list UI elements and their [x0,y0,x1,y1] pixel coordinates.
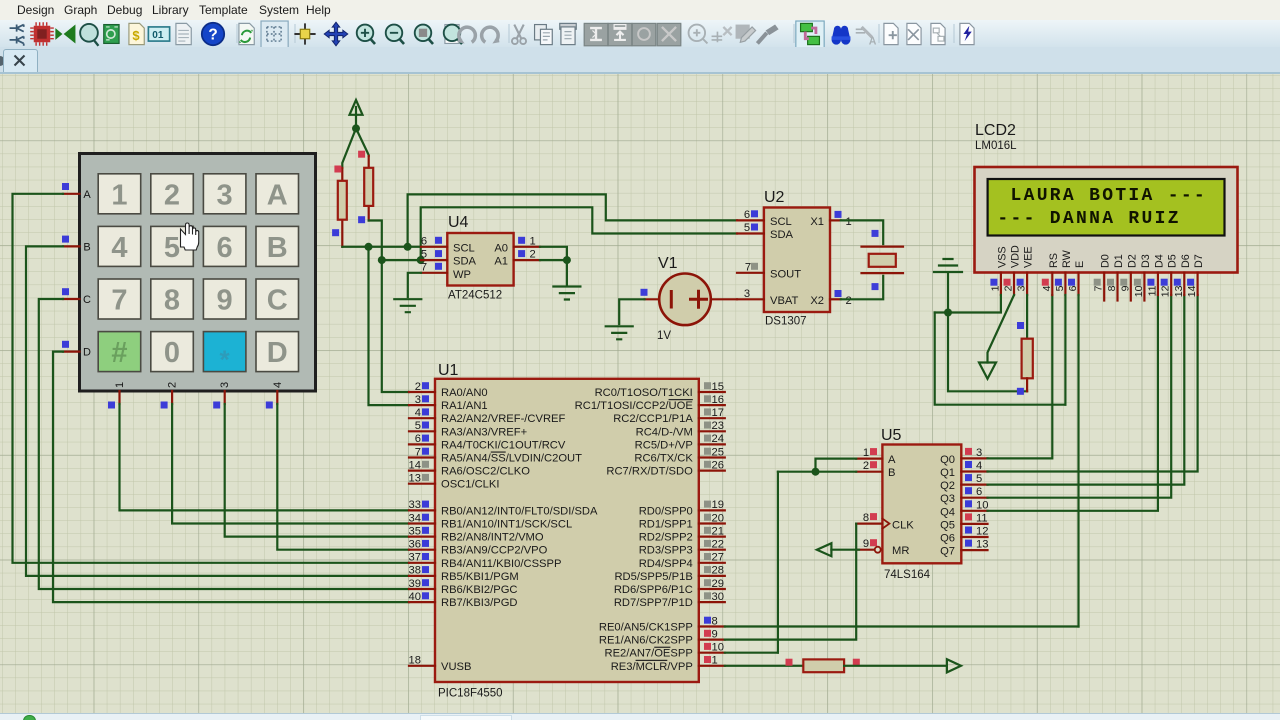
wire LCD VEE to resistor [1026,295,1028,339]
svg-text:8: 8 [164,285,180,317]
wire SDA column down to U1 RA0 [382,260,409,392]
wire outer loop to RW [935,313,1066,405]
svg-text:RE0/AN5/CK1SPP: RE0/AN5/CK1SPP [599,622,693,634]
wire U5 Q1 to LCD D7 [988,295,1198,472]
U1 pin 40 (RB7/KBI3/PGD) [409,591,518,609]
svg-text:9: 9 [1119,285,1131,291]
svg-text:RC5/D+/VP: RC5/D+/VP [635,439,693,451]
wire X1 to crystal [841,220,883,244]
U5 pin 12 (Q6) [961,526,988,538]
svg-text:6: 6 [217,232,233,264]
LCD pin 9 (D2) [1119,254,1138,300]
svg-text:17: 17 [712,407,724,419]
U1 pin 35 (RB2/AN8/INT2/VMO) [409,525,544,543]
svg-text:A: A [83,189,91,201]
svg-text:11: 11 [1146,285,1158,296]
ground (U4 WP) [394,299,421,312]
microcontroller U1 body [435,362,699,700]
svg-text:8: 8 [863,512,869,524]
svg-text:19: 19 [712,499,724,511]
svg-text:SDA: SDA [453,256,477,268]
svg-text:RA6/OSC2/CLKO: RA6/OSC2/CLKO [441,466,530,478]
svg-text:13: 13 [976,539,988,551]
svg-text:RD5/SPP5/P1B: RD5/SPP5/P1B [614,571,692,583]
node VEE wire [1017,322,1024,329]
svg-text:RD6/SPP6/P1C: RD6/SPP6/P1C [614,584,693,596]
U4 pin 5 [421,259,447,261]
U1 pin 33 (RB0/AN12/INT0/FLT0/SDI/SDA) [409,499,598,517]
wire keypad row C to U1 RB6 [39,299,409,589]
svg-text:VBAT: VBAT [770,295,799,307]
keypad row D pin [63,351,80,353]
U1 pin 13 (OSC1/CLKI) [409,473,500,491]
wire U5 B row to RE2 column [778,471,856,473]
svg-text:RA4/T0CKI/C1OUT/RCV: RA4/T0CKI/C1OUT/RCV [441,439,566,451]
svg-text:D7: D7 [1193,254,1205,268]
svg-text:5: 5 [1054,285,1066,291]
svg-text:1: 1 [111,179,127,211]
shift register U5 body [881,427,961,581]
svg-text:D4: D4 [1153,254,1165,268]
U2 pin 6 (SCL) [737,219,764,221]
U1 pin 23 (RC4/D-/VM) [636,420,725,438]
svg-text:9: 9 [217,285,233,317]
LCD pin 1 (VSS) [989,246,1008,295]
U1 pin 37 (RB4/AN11/KBI0/CSSPP) [409,552,562,570]
svg-text:5: 5 [421,249,427,261]
svg-text:3: 3 [219,382,231,388]
LCD pin 11 (D4) [1146,254,1165,296]
svg-text:1: 1 [114,382,126,388]
svg-text:2: 2 [164,179,180,211]
node keypad row A [62,183,69,190]
svg-text:MR: MR [892,545,909,557]
svg-text:8: 8 [712,615,718,627]
U5 pin 1 (A) [856,447,882,459]
svg-text:13: 13 [409,473,421,485]
svg-text:VEE: VEE [1023,246,1035,268]
svg-text:6: 6 [421,235,427,247]
svg-text:01: 01 [152,30,164,41]
svg-text:SCL: SCL [453,242,475,254]
svg-text:RA1/AN1: RA1/AN1 [441,400,488,412]
U1 pin 20 (RD1/SPP1) [639,512,725,530]
wire resistor to arrow terminal [844,665,947,667]
U1 pin 9 (RE1/AN6/CK2SPP) [599,628,725,646]
svg-text:U1: U1 [438,362,459,379]
U1 pin 25 (RC6/TX/CK) [634,446,724,464]
svg-text:6: 6 [976,486,982,498]
U1 pin 3 (RA1/AN1) [409,394,488,412]
U5 pin 10 (Q4) [961,499,988,511]
svg-text:4: 4 [976,460,982,472]
svg-text:1V: 1V [657,330,671,342]
U2 pin 3 (VBAT) [737,298,764,300]
svg-text:3: 3 [976,447,982,459]
svg-text:SOUT: SOUT [770,268,801,280]
ground (V1) [606,326,633,339]
wire SCL row [342,246,421,248]
op-amp U2 body [764,189,830,328]
svg-text:13: 13 [1173,285,1185,297]
svg-text:B: B [888,467,895,479]
svg-text:RD1/SPP1: RD1/SPP1 [639,519,693,531]
keypad column 3 pin [224,391,226,404]
svg-text:B: B [83,241,90,253]
svg-text:D6: D6 [1180,254,1192,268]
svg-text:RB6/KBI2/PGC: RB6/KBI2/PGC [441,584,517,596]
svg-text:0: 0 [164,337,180,369]
svg-text:4: 4 [1041,285,1053,291]
svg-text:21: 21 [712,525,724,537]
svg-text:RB4/AN11/KBI0/CSSPP: RB4/AN11/KBI0/CSSPP [441,558,561,570]
wire LCD VSS down-left [935,295,1001,313]
svg-text:3: 3 [744,288,750,300]
svg-text:Q3: Q3 [940,493,955,505]
U1 pin 8 (RE0/AN5/CK1SPP) [599,615,725,633]
wire ground node to VEE resistor bottom [948,313,1027,392]
LCD pin 8 (D1) [1106,254,1125,300]
svg-text:29: 29 [712,578,724,590]
LCD pin 12 (D5) [1160,254,1179,297]
svg-text:U5: U5 [881,427,902,444]
wire LCD VDD diagonal [988,295,1015,363]
LCD display LCD2 body [975,122,1238,273]
U1 pin 19 (RD0/SPP0) [639,499,725,517]
U1 pin 5 (RA3/AN3/VREF+) [409,420,527,438]
svg-text:A1: A1 [494,256,508,268]
svg-text:DS1307: DS1307 [765,316,807,328]
svg-text:Q6: Q6 [940,533,955,545]
svg-text:7: 7 [415,446,421,458]
U1 pin 30 (RD7/SPP7/P1D) [614,591,725,609]
svg-text:10: 10 [1133,285,1145,297]
U5 pin 4 (Q1) [961,460,987,472]
U5 pin 2 (B) [856,460,882,472]
svg-text:2: 2 [846,295,852,307]
svg-text:14: 14 [409,459,421,471]
svg-text:8: 8 [1106,285,1118,291]
svg-text:2: 2 [167,382,179,388]
svg-text:23: 23 [712,420,724,432]
svg-text:9: 9 [712,628,718,640]
keypad column 1 pin [118,391,120,404]
U4 pin 1 (A0) [514,246,540,248]
svg-text:A0: A0 [494,242,508,254]
keypad row C pin [63,298,80,300]
node keypad row D [62,341,69,348]
svg-text:D3: D3 [1140,254,1152,268]
mouse cursor [181,223,199,250]
U1 pin 22 (RD3/SPP3) [639,539,725,557]
node right resistor top [358,151,365,158]
wire LCD RW down [1064,295,1066,405]
svg-text:3: 3 [415,394,421,406]
wire V1 to ground [619,299,644,324]
svg-text:Q4: Q4 [940,506,955,518]
terminal arrow right (MCLR) [947,659,961,672]
svg-text:6: 6 [415,433,421,445]
LCD pin 4 (RS) [1041,253,1060,295]
U4 pin 7 [421,272,447,274]
svg-text:2: 2 [415,381,421,393]
svg-text:RW: RW [1061,249,1073,268]
svg-text:39: 39 [409,578,421,590]
U4 pin 6 [421,246,447,248]
svg-text:VSS: VSS [996,246,1008,268]
U1 pin 7 (RA5/AN4/SS/LVDIN/C2OUT) [409,446,582,464]
svg-text:D0: D0 [1100,254,1112,268]
wire power to left resistor [342,128,356,168]
svg-text:1: 1 [712,655,718,667]
junction SDA / U2 branch [417,256,425,264]
LCD pin 5 (RW) [1054,249,1073,295]
resistor pull-up right [364,156,373,221]
svg-text:10: 10 [712,642,724,654]
junction SDA / RA0 branch [378,256,386,264]
battery V1 [657,255,711,342]
keypad 4x4 [80,154,316,392]
U1 pin 29 (RD6/SPP6/P1C) [614,578,725,596]
svg-text:RB2/AN8/INT2/VMO: RB2/AN8/INT2/VMO [441,532,544,544]
svg-text:RC2/CCP1/P1A: RC2/CCP1/P1A [613,413,693,425]
svg-text:D5: D5 [1167,254,1179,268]
LCD pin 2 (VDD) [1003,245,1022,295]
wire keypad column 4 to U1 RB3 [277,404,409,550]
svg-text:LM016L: LM016L [975,140,1017,152]
svg-text:36: 36 [409,539,421,551]
U5 pin 5 (Q2) [961,473,987,485]
U1 pin 1 (RE3/MCLR/VPP) [611,655,725,673]
svg-text:2: 2 [530,249,536,261]
svg-text:D: D [83,347,91,359]
svg-text:22: 22 [712,539,724,551]
svg-text:25: 25 [712,446,724,458]
wire SDA row [382,259,421,261]
wire keypad column 3 to U1 RB2 [225,404,409,537]
svg-text:5: 5 [415,420,421,432]
LCD pin 14 (D7) [1186,254,1205,297]
wire U4 A1 to ground node [540,259,567,261]
node resistor left [786,659,793,666]
svg-text:1: 1 [989,285,1001,291]
svg-text:RB1/AN10/INT1/SCK/SCL: RB1/AN10/INT1/SCK/SCL [441,519,572,531]
svg-text:RE1/AN6/CK2SPP: RE1/AN6/CK2SPP [599,635,693,647]
svg-text:WP: WP [453,269,471,281]
svg-text:D2: D2 [1126,254,1138,268]
U1 pin 18 (VUSB) [409,655,472,673]
svg-text:U2: U2 [764,189,785,206]
svg-text:20: 20 [712,512,724,524]
svg-text:RE3/MCLR/VPP: RE3/MCLR/VPP [611,661,693,673]
svg-text:RE2/AN7/OESPP: RE2/AN7/OESPP [604,648,692,660]
svg-text:RB7/KBI3/PGD: RB7/KBI3/PGD [441,597,517,609]
wire SCL up and over to U2 pin6 [408,194,737,246]
svg-text:RA0/AN0: RA0/AN0 [441,387,488,399]
svg-text:40: 40 [409,591,421,603]
svg-text:SDA: SDA [770,229,794,241]
U1 pin 39 (RB6/KBI2/PGC) [409,578,518,596]
node left resistor top [334,166,341,173]
svg-text:12: 12 [976,526,988,538]
terminal arrow down (VDD) [979,363,996,379]
svg-text:AT24C512: AT24C512 [448,290,502,302]
node right resistor bottom [358,216,365,223]
svg-text:D: D [267,337,288,369]
node V1 left [641,289,648,296]
keypad column 2 pin [171,391,173,404]
U1 pin 2 (RA0/AN0) [409,381,488,399]
svg-text:RS: RS [1048,253,1060,268]
svg-text:34: 34 [409,512,421,524]
terminal arrow left (MR) [817,543,832,556]
svg-text:RC4/D-/VM: RC4/D-/VM [636,426,693,438]
svg-text:1: 1 [846,216,852,228]
svg-text:5: 5 [164,232,180,264]
LCD pin 7 (D0) [1093,254,1112,300]
resistor (VEE contrast) [1022,339,1033,392]
svg-text:26: 26 [712,459,724,471]
junction A0/A1 ground node [563,256,571,264]
wire U5 Q3 to LCD D5 [988,295,1172,498]
resistor pull-up left [338,168,347,247]
U1 pin 36 (RB3/AN9/CCP2/VPO) [409,539,548,557]
svg-text:38: 38 [409,565,421,577]
svg-text:?: ? [208,26,217,43]
power terminal (arrow up) [350,100,363,128]
LCD pin 13 (D6) [1173,254,1192,297]
svg-text:RD2/SPP2: RD2/SPP2 [639,532,693,544]
keypad row A pin [63,193,80,195]
wire U5 A jog to B row [816,459,857,472]
U1 pin 15 (RC0/T1OSO/T1CKI) [595,381,725,399]
svg-text:RD7/SPP7/P1D: RD7/SPP7/P1D [614,597,693,609]
svg-text:C: C [83,294,91,306]
junction A/B tie [812,468,820,476]
svg-text:Q0: Q0 [940,454,955,466]
svg-text:11: 11 [976,512,988,524]
LCD pin 6 (E) [1067,261,1086,295]
svg-text:2: 2 [863,460,869,472]
svg-text:5: 5 [744,222,750,234]
wire U1 RE1 to U5 CLK [725,524,856,640]
svg-text:30: 30 [712,591,724,603]
U1 pin 34 (RB1/AN10/INT1/SCK/SCL) [409,512,573,530]
U2 pin 7 (SOUT) [737,272,764,274]
svg-text:RB5/KBI1/PGM: RB5/KBI1/PGM [441,571,519,583]
svg-text:RB0/AN12/INT0/FLT0/SDI/SDA: RB0/AN12/INT0/FLT0/SDI/SDA [441,505,598,517]
svg-text:RC1/T1OSI/CCP2/UOE: RC1/T1OSI/CCP2/UOE [575,400,693,412]
U1 pin 14 (RA6/OSC2/CLKO) [409,459,531,477]
ground (U4 A0/A1) [553,287,580,300]
wire U1 RE3 to resistor [725,665,804,667]
svg-text:6: 6 [744,209,750,221]
node crystal bottom [872,283,879,290]
node resistor right [853,659,860,666]
junction SCL / U2 branch [404,243,412,251]
svg-text:1: 1 [530,235,536,247]
svg-text:27: 27 [712,552,724,564]
svg-text:5: 5 [976,473,982,485]
svg-text:PIC18F4550: PIC18F4550 [438,688,503,700]
svg-text:E: E [1074,261,1086,268]
U4 pin 2 (A1) [514,259,540,261]
svg-text:4: 4 [272,382,284,388]
wire keypad row B to U1 RB5 [26,246,409,576]
svg-text:RA5/AN4/SS/LVDIN/C2OUT: RA5/AN4/SS/LVDIN/C2OUT [441,453,582,465]
svg-text:D1: D1 [1113,254,1125,268]
svg-text:RA2/AN2/VREF-/CVREF: RA2/AN2/VREF-/CVREF [441,413,565,425]
U1 pin 24 (RC5/D+/VP) [635,433,725,451]
node keypad column 1 [108,402,115,409]
svg-text:6: 6 [1067,285,1079,291]
svg-text:RD4/SPP4: RD4/SPP4 [639,558,693,570]
U1 pin 28 (RD5/SPP5/P1B) [614,565,724,583]
svg-text:--- DANNA RUIZ: --- DANNA RUIZ [997,209,1180,229]
U1 pin 4 (RA2/AN2/VREF-/CVREF) [409,407,565,425]
U1 pin 16 (RC1/T1OSI/CCP2/UOE) [575,394,725,412]
svg-text:A: A [267,179,288,211]
U5 pin 3 (Q0) [961,447,987,459]
U5 pin 8 (CLK) [856,512,882,524]
wire U4 A0 loop to A1 node [540,247,567,260]
svg-text:SCL: SCL [770,216,792,228]
V1 pin right / wire to U2 VBAT [711,298,737,300]
U2 pin 5 (SDA) [737,232,764,234]
svg-text:Q5: Q5 [940,519,955,531]
svg-text:U4: U4 [448,214,469,231]
wire SCL down to U1 RA1 [369,247,410,405]
svg-text:4: 4 [111,232,127,264]
wire LCD E down [1077,295,1079,627]
wire U5 MR to terminal [831,549,859,551]
node left resistor bottom [332,229,339,236]
svg-text:RD0/SPP0: RD0/SPP0 [639,505,693,517]
junction LCD ground node [944,309,952,317]
junction power node [352,124,360,132]
svg-text:3: 3 [1016,285,1028,291]
ground (LCD, inverted) [934,259,962,313]
U1 pin 6 (RA4/T0CKI/C1OUT/RCV) [409,433,566,451]
svg-text:7: 7 [421,261,427,273]
svg-text:10: 10 [976,499,988,511]
svg-text:15: 15 [712,381,724,393]
svg-text:V1: V1 [658,255,678,272]
svg-text:4: 4 [415,407,421,419]
wire U4 WP to ground [408,273,421,297]
wire U5 Q4 to LCD D4 [988,295,1158,511]
U2 pin 1 (X1) [830,219,841,221]
svg-text:3: 3 [217,179,233,211]
svg-text:RC7/RX/DT/SDO: RC7/RX/DT/SDO [606,466,693,478]
svg-text:24: 24 [712,433,724,445]
U1 pin 10 (RE2/AN7/OESPP) [604,642,724,660]
svg-text:CLK: CLK [892,519,914,531]
svg-text:RA3/AN3/VREF+: RA3/AN3/VREF+ [441,426,527,438]
node crystal top [872,230,879,237]
U1 pin 17 (RC2/CCP1/P1A) [613,407,725,425]
svg-text:*: * [220,345,231,375]
op-amp U4 body [447,214,513,302]
keypad row B pin [63,245,80,247]
svg-text:7: 7 [1093,285,1105,291]
wire U1 RE0 to LCD E column [725,625,1079,627]
svg-text:A: A [888,454,896,466]
svg-text:X2: X2 [810,295,824,307]
svg-text:RC6/TX/CK: RC6/TX/CK [634,453,693,465]
svg-text:OSC1/CLKI: OSC1/CLKI [441,479,499,491]
svg-text:18: 18 [409,655,421,667]
